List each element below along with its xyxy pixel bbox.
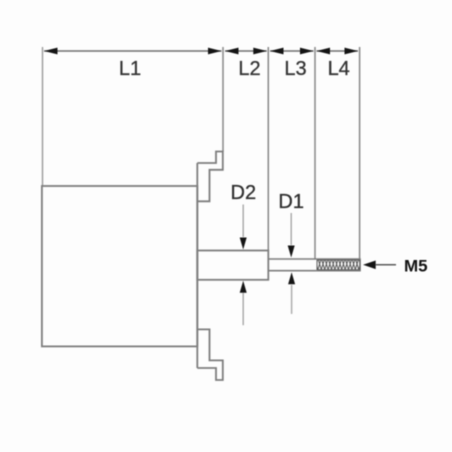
- arrowhead L1 right: [208, 48, 222, 55]
- D2 bottom arrowhead: [240, 281, 247, 293]
- D1 bottom arrowhead: [288, 272, 295, 284]
- D1 bottom arrow stem: [291, 285, 293, 314]
- D1 top arrow stem: [290, 213, 292, 245]
- svg-text:D2: D2: [231, 182, 257, 204]
- svg-text:L2: L2: [238, 58, 260, 80]
- flange top step profile with mounting tab: [197, 152, 223, 202]
- M5 leader arrowhead: [363, 261, 376, 270]
- extension line left (body left edge, x=42.5): [42, 47, 44, 186]
- dimension line L3: [270, 50, 314, 52]
- dimension line L2: [225, 50, 267, 52]
- arrowhead L3 right: [300, 48, 314, 55]
- arrowhead L3 left: [270, 48, 284, 55]
- svg-text:L1: L1: [119, 58, 141, 80]
- svg-text:L4: L4: [328, 58, 350, 80]
- dimension line L4: [317, 50, 359, 52]
- threaded section M5 (hatched): [317, 260, 360, 270]
- flange bottom step profile with mounting tab: [197, 329, 223, 380]
- arrowhead L4 right: [345, 48, 359, 55]
- D1 top arrowhead: [288, 246, 295, 258]
- thread runout line: [316, 259, 318, 271]
- D2 top arrowhead: [240, 238, 247, 250]
- flange back face (vertical line above and below body): [196, 163, 198, 368]
- shaft boss D2 rectangle: [197, 251, 268, 280]
- arrowhead L2 left: [225, 48, 239, 55]
- extension line L1/L2 boundary (x=223): [222, 47, 224, 152]
- arrowhead L1 left: [44, 48, 58, 55]
- svg-text:D1: D1: [278, 191, 304, 213]
- shaft D1 outline: [268, 259, 360, 271]
- D2 bottom arrow stem: [242, 293, 244, 325]
- extension line L2/L3 boundary (x=268.3): [267, 47, 269, 251]
- extension line L3/L4 boundary (x=315): [314, 47, 316, 260]
- M5 leader line: [376, 264, 396, 266]
- svg-text:M5: M5: [404, 257, 428, 276]
- D2 top arrow stem: [242, 205, 244, 238]
- svg-text:L3: L3: [284, 58, 306, 80]
- extension line right end (x=359.6): [359, 47, 361, 260]
- arrowhead L4 left: [317, 48, 331, 55]
- arrowhead L2 right: [253, 48, 266, 55]
- motor body rectangle: [42, 186, 197, 346]
- dimension line L1: [44, 50, 222, 52]
